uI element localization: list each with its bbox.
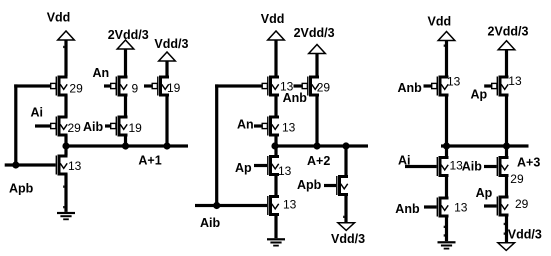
wire input Aib to M10 gate <box>195 204 267 207</box>
svg-text:A+1: A+1 <box>138 153 161 167</box>
node A+2 junction at M12 <box>342 142 349 149</box>
ground (right) <box>438 241 456 243</box>
svg-text:Vdd/3: Vdd/3 <box>508 228 542 242</box>
svg-text:Aib: Aib <box>83 120 104 134</box>
wire 2Vdd/3 to M11 drain <box>315 54 318 77</box>
wire M6 source to A+1 line <box>165 95 168 147</box>
wire 2Vdd/3 to M16 drain <box>505 50 508 76</box>
wire joint ticks (artifacts reproduced from source) <box>63 46 64 48</box>
transistor M2 (PMOS, gate Ai) <box>51 116 68 137</box>
transistor M5 (PMOS, gate Aib) <box>111 116 128 137</box>
svg-text:Vdd: Vdd <box>428 15 452 29</box>
wire input Ap to M9 gate <box>254 164 267 167</box>
power symbol 2Vdd/3 (left) (up arrow) <box>117 40 134 49</box>
svg-text:Anb: Anb <box>398 81 423 95</box>
wire node to M14 drain <box>445 146 448 157</box>
svg-text:13: 13 <box>454 201 468 215</box>
wire M11 source to A+2 line <box>315 95 318 147</box>
transistor M14 (NMOS, gate Ai) <box>437 156 449 177</box>
wire M18 source to Vdd/3 arrow <box>505 215 508 243</box>
node A+3 junction at M13/M14 <box>443 142 450 149</box>
node A+2 junction at M8/M9 <box>271 142 278 149</box>
wire M11 gate stub <box>294 84 303 87</box>
svg-text:13: 13 <box>508 74 522 88</box>
svg-text:Vdd/3: Vdd/3 <box>154 37 188 51</box>
transistor M18 (NMOS, gate Ap) <box>497 196 509 217</box>
power symbol Vdd/3 (left) (up arrow) <box>159 52 176 61</box>
svg-text:An: An <box>93 66 110 80</box>
transistor M11 (PMOS, floating gate stub) <box>302 76 319 97</box>
svg-text:29: 29 <box>515 197 529 211</box>
wire M13 source to A+3 line <box>445 95 448 147</box>
node A+3 junction at M16/M17 <box>503 142 510 149</box>
wire M9 source to M10 drain <box>274 174 277 197</box>
svg-text:Ap: Ap <box>235 161 252 175</box>
wire output line A+3 <box>441 144 529 147</box>
power symbol 2Vdd/3 (right) (up arrow) <box>498 41 515 50</box>
wire input Ap to M18 gate <box>484 204 497 207</box>
wire M6 gate stub <box>144 84 152 87</box>
wire M7 source to M8 drain <box>274 95 277 118</box>
wire Apb rail top to M1 gate <box>14 84 51 87</box>
svg-text:Anb: Anb <box>395 202 420 216</box>
wire node to M9 drain <box>274 146 277 156</box>
svg-text:Ap: Ap <box>471 88 488 102</box>
wire M1 source to M2 drain <box>64 95 67 118</box>
transistor M1 (PMOS, gate from Apb rail) <box>51 76 68 97</box>
wire Aib rail top to M7 gate <box>215 84 262 87</box>
svg-text:A+3: A+3 <box>517 156 540 170</box>
wire input Anb to M13 gate <box>424 84 432 87</box>
wire input Ap to M16 gate <box>484 84 492 87</box>
wire output line A+2 <box>273 144 368 147</box>
ground (left) <box>57 212 75 214</box>
wire Vdd/3 to M6 drain <box>165 61 168 76</box>
wire input Ai to M2 gate <box>35 124 51 127</box>
wire Vdd to M7 drain <box>274 40 277 76</box>
power symbol Vdd (left) (up arrow) <box>58 31 75 40</box>
transistor M4 (PMOS, gate An) <box>111 76 128 97</box>
wire M12 source to Vdd/3 arrow <box>344 194 347 223</box>
wire input Apb to M3 gate <box>5 163 56 166</box>
wire Vdd to M1 drain <box>64 40 67 76</box>
svg-text:13: 13 <box>278 164 292 178</box>
svg-text:19: 19 <box>129 121 143 135</box>
wire M4 source to M5 drain <box>124 95 127 118</box>
svg-text:13: 13 <box>68 159 82 173</box>
wire input Aib to M5 gate <box>105 124 111 127</box>
svg-text:Aib: Aib <box>200 216 221 230</box>
wire input Anb to M15 gate <box>424 205 437 208</box>
svg-text:Ai: Ai <box>398 154 411 168</box>
svg-text:An: An <box>237 117 254 131</box>
svg-text:19: 19 <box>167 81 181 95</box>
transistor M16 (PMOS, gate Ap) <box>492 76 509 97</box>
power symbol Vdd/3 (middle) (down arrow) <box>338 223 355 231</box>
svg-text:29: 29 <box>68 121 82 135</box>
power symbol Vdd/3 (right) (down arrow) <box>498 243 515 251</box>
node A+1 junction at M2/M3 <box>62 142 69 149</box>
transistor M10 (NMOS, gate Aib) <box>267 195 279 216</box>
wire M17 source to M18 drain <box>505 175 508 197</box>
transistor M7 (PMOS, gate from Aib rail) <box>262 76 279 97</box>
wire M10 source to ground <box>274 214 277 238</box>
wire output line A+1 <box>64 144 188 147</box>
wire Apb rail vertical <box>14 84 17 165</box>
svg-text:Anb: Anb <box>283 91 308 105</box>
svg-text:Ai: Ai <box>31 105 44 119</box>
wire input Apb to M12 gate <box>324 184 336 187</box>
power symbol Vdd (right) (up arrow) <box>438 32 455 41</box>
svg-text:2Vdd/3: 2Vdd/3 <box>488 24 529 38</box>
svg-text:29: 29 <box>510 172 524 186</box>
svg-text:Apb: Apb <box>9 181 34 195</box>
wire M2 source to node A+1 <box>64 135 67 147</box>
node A+1 junction at M6 <box>163 142 170 149</box>
transistor M8 (PMOS, gate An) <box>262 116 279 137</box>
wire A+2 line to M12 drain <box>344 146 347 176</box>
wire M8 source to node A+2 <box>274 135 277 147</box>
wire Aib rail vertical <box>215 84 218 205</box>
wire node to M3 drain <box>64 146 67 156</box>
wire M5 source to A+1 line <box>124 135 127 147</box>
wire input Aib to M17 gate <box>484 165 497 168</box>
transistor M12 (NMOS, gate Apb) <box>336 175 348 196</box>
wire M16 source to A+3 line <box>505 95 508 147</box>
transistor M15 (NMOS, gate Anb) <box>437 197 449 218</box>
node Aib junction (middle) <box>213 202 220 209</box>
svg-text:A+2: A+2 <box>307 154 330 168</box>
node Apb junction <box>12 161 19 168</box>
ground (middle) <box>267 238 285 240</box>
svg-text:Aib: Aib <box>462 159 483 173</box>
wire M3 source to ground <box>64 174 67 212</box>
wire M14 source to M15 drain <box>445 175 448 197</box>
svg-text:Vdd: Vdd <box>47 11 71 25</box>
node A+2 junction at M11 <box>313 142 320 149</box>
wire input An to M8 gate <box>254 124 262 127</box>
transistor M17 (NMOS, gate Aib) <box>497 156 509 177</box>
svg-text:Vdd/3: Vdd/3 <box>331 232 365 246</box>
svg-text:2Vdd/3: 2Vdd/3 <box>108 28 149 42</box>
wire node to M17 drain <box>505 146 508 157</box>
wire 2Vdd/3 to M4 drain <box>124 49 127 76</box>
power symbol 2Vdd/3 (middle) (up arrow) <box>309 45 326 54</box>
wire Vdd to M13 drain <box>445 41 448 77</box>
svg-text:13: 13 <box>282 121 296 135</box>
wire input Ai to M14 gate <box>405 165 437 168</box>
node A+1 junction at M5 <box>122 142 129 149</box>
svg-text:13: 13 <box>447 75 461 89</box>
transistor M9 (NMOS, gate Ap) <box>267 155 279 176</box>
svg-text:2Vdd/3: 2Vdd/3 <box>294 26 335 40</box>
wire input An to M4 gate <box>104 84 111 87</box>
svg-text:Vdd: Vdd <box>261 12 285 26</box>
power symbol Vdd (middle) (up arrow) <box>268 31 285 40</box>
transistor M6 (PMOS, floating gate stub) <box>152 76 169 97</box>
svg-text:Apb: Apb <box>297 178 322 192</box>
svg-text:9: 9 <box>132 82 139 96</box>
svg-text:29: 29 <box>317 81 331 95</box>
svg-text:29: 29 <box>69 81 83 95</box>
transistor M13 (PMOS, gate Anb) <box>432 76 449 97</box>
transistor M3 (NMOS, gate Apb) <box>56 155 68 176</box>
svg-text:13: 13 <box>283 198 297 212</box>
svg-text:Ap: Ap <box>476 186 493 200</box>
wire M15 source to ground <box>445 216 448 242</box>
